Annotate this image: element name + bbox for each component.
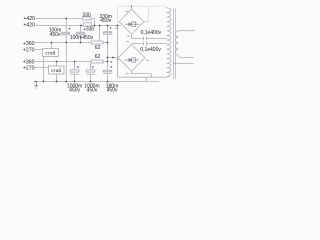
wire stab2 top lead xyxy=(56,62,58,67)
wire primary top terminal xyxy=(178,30,195,32)
transformer T1 secondary winding xyxy=(166,8,171,77)
wire +420 rail 1 xyxy=(35,18,94,20)
junction dots xyxy=(43,6,133,83)
wire bridge1 AC row to cap xyxy=(132,38,167,40)
svg-text:+270: +270 xyxy=(23,48,35,54)
diode inside VD1 xyxy=(125,22,139,26)
capacitor C6 180m 450v xyxy=(103,70,112,73)
svg-text:+270: +270 xyxy=(23,66,35,72)
wire bus start tick xyxy=(34,81,37,83)
wire cap C4 top lead xyxy=(74,62,76,70)
wire cap C2 bottom lead xyxy=(80,35,82,43)
svg-text:330: 330 xyxy=(82,13,91,19)
svg-text:62: 62 xyxy=(95,45,101,51)
resistor R4 62 xyxy=(91,60,103,63)
wire +360 rail 2 xyxy=(35,61,108,63)
svg-text:450v: 450v xyxy=(87,88,98,94)
svg-text:стаб: стаб xyxy=(45,50,55,56)
wire cap C5 top lead xyxy=(90,63,92,70)
wire cap C1 bottom lead to bus xyxy=(65,35,67,82)
capacitor C2 100m450v xyxy=(76,32,85,35)
wire 330m cap vertical bottom / node column xyxy=(107,34,109,70)
bridge rectifier VD1 xyxy=(119,9,144,34)
bridge rectifier VD2 xyxy=(118,44,145,71)
svg-text:0,1e400v: 0,1e400v xyxy=(141,30,162,36)
wire stab2 bottom lead xyxy=(56,74,58,82)
wire top rail (light) xyxy=(118,6,167,25)
wire bridge1 right stub xyxy=(143,21,148,23)
svg-text:62: 62 xyxy=(95,54,101,60)
wire rail2 to R3 xyxy=(99,26,101,41)
svg-text:100m450v: 100m450v xyxy=(70,35,94,41)
wire stab1 top lead xyxy=(51,43,53,49)
wire stab1 bottom lead xyxy=(43,57,45,82)
wire cap C6 bottom lead xyxy=(107,73,109,81)
transformer T1 core xyxy=(174,9,176,80)
ground xyxy=(34,82,38,89)
capacitor C4 1000m 450v xyxy=(70,70,79,74)
stabilizer U1 xyxy=(43,49,59,57)
wire ground bus xyxy=(35,81,160,83)
AC tilde marks xyxy=(115,11,149,74)
svg-text:0,1e400v: 0,1e400v xyxy=(140,47,161,53)
svg-text:+360: +360 xyxy=(23,41,35,47)
wire primary bottom terminal xyxy=(178,55,194,57)
wire cap C4 bottom lead xyxy=(74,74,76,81)
wire winding bottom line xyxy=(118,75,169,77)
resistor R3 62 xyxy=(91,41,103,44)
wire +270 rail 2 xyxy=(35,67,49,69)
wire +360 rail 1 xyxy=(35,42,108,44)
capacitor C5 1000m 450v xyxy=(86,70,95,74)
capacitor C7 0,1e400v xyxy=(144,37,147,41)
svg-text:330: 330 xyxy=(86,27,95,33)
svg-text:+420: +420 xyxy=(23,23,35,29)
svg-text:+420: +420 xyxy=(23,16,35,22)
wire cap C5 bottom lead xyxy=(90,74,92,81)
wire bridge2 AC row to cap xyxy=(132,43,167,46)
wire bus to winding bottom xyxy=(146,77,148,81)
wire bridge2 bottom stub xyxy=(131,71,133,73)
wire bridge2 feed xyxy=(108,57,118,59)
capacitor C1 100m 450v xyxy=(61,32,70,35)
svg-text:+360: +360 xyxy=(23,60,35,66)
wire bridge2 bottom to winding line xyxy=(132,74,152,78)
wire bridge1 bottom stub xyxy=(131,34,133,38)
wire +270 rail 1 xyxy=(35,49,43,51)
resistor R1 330 xyxy=(83,17,92,20)
wire +420 rail 2 xyxy=(35,25,121,27)
svg-text:450v: 450v xyxy=(69,88,80,94)
diode inside VD2 xyxy=(125,58,139,62)
wire cap C2 top lead xyxy=(80,26,82,33)
transformer T1 primary winding xyxy=(175,31,178,56)
svg-text:450v: 450v xyxy=(50,32,61,38)
capacitor C3 330m 450v xyxy=(103,32,112,35)
stabilizer U2 xyxy=(49,66,65,74)
svg-text:450v: 450v xyxy=(107,88,118,94)
wire cap C1 top lead xyxy=(65,19,67,33)
capacitor C8 0,1e400v xyxy=(144,42,147,46)
svg-text:450v: 450v xyxy=(100,18,111,24)
resistor R2 330 xyxy=(84,23,92,26)
wire 330m cap vertical top xyxy=(107,26,109,32)
wire left loop vertical xyxy=(117,26,119,78)
polarity marks xyxy=(68,27,112,68)
wire screen line xyxy=(173,62,194,64)
wire rail1-rail2 connector xyxy=(94,19,96,26)
svg-text:стаб: стаб xyxy=(51,68,61,74)
wire bridge1 top stub xyxy=(131,6,133,10)
